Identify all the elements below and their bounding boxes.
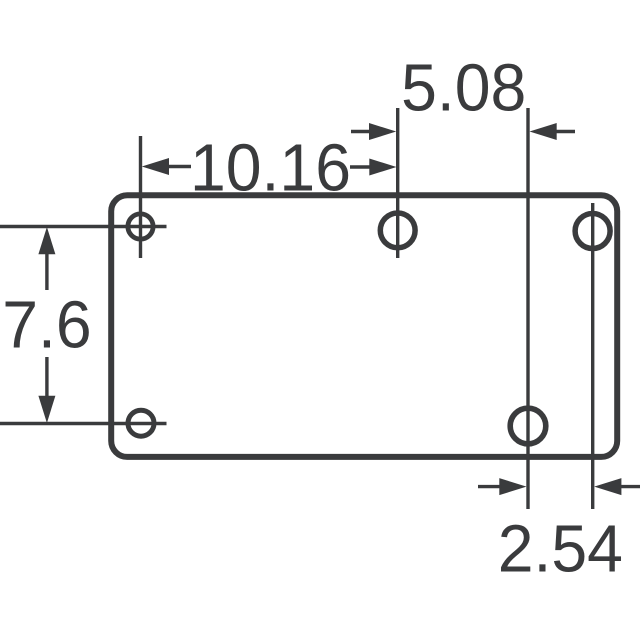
extension line through hole A (top-left): [139, 136, 142, 258]
relay body outline: [111, 195, 617, 457]
dimension 7.6 down arrow: [38, 357, 55, 423]
extension line through hole E (bottom-right, full height): [526, 108, 529, 509]
svg-text:5.08: 5.08: [401, 50, 526, 124]
extension line through hole D horizontal (bottom-left): [0, 422, 167, 425]
hole D (bottom-left, small): [128, 410, 154, 436]
extension line through hole C (top-right): [591, 203, 594, 509]
extension line through hole B (top-middle): [396, 108, 399, 258]
hole A (top-left, small): [128, 214, 153, 239]
dimension 5.08 left arrow: [351, 123, 396, 140]
dimension 10.16 right arrow: [350, 159, 397, 176]
hole E (bottom-right, large): [510, 408, 546, 444]
dimension 10.16 left arrow: [142, 158, 191, 175]
dimension 5.08 right arrow: [530, 123, 576, 140]
dimension 7.6 up arrow: [38, 227, 55, 290]
dimension 2.54 left arrow: [478, 478, 527, 495]
dimension 2.54 right arrow: [594, 478, 640, 495]
hole B (top-middle, large): [380, 213, 415, 248]
svg-text:7.6: 7.6: [2, 287, 91, 361]
extension line through hole A horizontal: [0, 225, 167, 228]
svg-text:2.54: 2.54: [498, 511, 623, 585]
hole C (top-right, large): [575, 214, 610, 249]
svg-text:10.16: 10.16: [190, 130, 351, 204]
